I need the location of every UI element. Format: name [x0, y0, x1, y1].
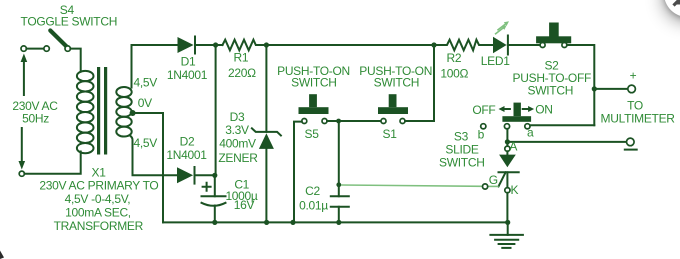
- bottom-left corner mark: [0, 251, 4, 259]
- S3 arrow ON (right): [523, 108, 529, 110]
- terminal plus (to multimeter): [628, 85, 636, 93]
- wire R1 junction down to zener: [265, 45, 267, 132]
- terminal minus (to multimeter): [627, 138, 635, 146]
- wire S5 right to junction to S1: [327, 120, 381, 122]
- node junction top bus / S1: [431, 42, 436, 47]
- svg-text:4,5V -0-4,5V,: 4,5V -0-4,5V,: [65, 192, 131, 206]
- wire gate (light) C2 to G terminal: [341, 185, 483, 186]
- svg-text:A: A: [509, 139, 517, 153]
- svg-text:SWITCH: SWITCH: [439, 155, 485, 169]
- wire slide switch a to S2 vertical: [530, 124, 594, 126]
- wire S5 left leg to bus: [294, 122, 302, 223]
- corner button arrow icon: [674, 0, 680, 6]
- node C2/bus: [336, 220, 341, 225]
- SCR gate terminal G: [483, 184, 488, 189]
- SCR gate lead: [499, 172, 506, 186]
- node S5/bus: [290, 220, 295, 225]
- svg-text:a: a: [527, 125, 534, 139]
- S3 arrow OFF (left): [504, 108, 510, 110]
- svg-text:SWITCH: SWITCH: [291, 75, 337, 89]
- wire to plus terminal: [594, 88, 628, 90]
- transformer X1 core: [97, 67, 100, 155]
- svg-text:1N4001: 1N4001: [166, 148, 207, 162]
- node C1/bus: [212, 220, 217, 225]
- wire LED1 to S2: [508, 44, 540, 46]
- svg-text:400mV: 400mV: [219, 136, 256, 150]
- node junction S5/S1/C2: [336, 119, 341, 124]
- svg-text:4,5V: 4,5V: [134, 76, 158, 90]
- wire to minus terminal: [507, 141, 626, 143]
- AC source arrow up: [23, 60, 25, 95]
- S3 terminal centre: [504, 124, 509, 129]
- push-to-off switch S2 button: [536, 36, 571, 43]
- push-to-on switch S5 button: [299, 107, 329, 114]
- svg-text:MULTIMETER: MULTIMETER: [601, 111, 676, 125]
- zener diode D3: [252, 128, 281, 135]
- ground: [507, 222, 509, 235]
- wire top bus left segment (transformer 4.5V top tap to D1): [132, 45, 178, 88]
- S5 terminal left: [302, 119, 307, 124]
- node junction plus-feed: [592, 86, 597, 91]
- node junction D1/R1: [213, 42, 218, 47]
- svg-text:R1: R1: [234, 51, 249, 65]
- capacitor C2: [331, 196, 349, 207]
- node ground junction: [505, 220, 510, 225]
- wire D1 cathode to R1: [195, 44, 223, 46]
- svg-text:b: b: [478, 128, 485, 142]
- svg-text:R2: R2: [447, 51, 462, 65]
- svg-text:50Hz: 50Hz: [22, 111, 49, 125]
- node 0V centre tap: [130, 110, 136, 116]
- svg-text:TOGGLE SWITCH: TOGGLE SWITCH: [21, 15, 118, 29]
- svg-text:ZENER: ZENER: [218, 151, 258, 165]
- S2 terminal left: [540, 43, 545, 48]
- wire S3 centre terminal down to SCR: [506, 129, 508, 142]
- svg-text:4,5V: 4,5V: [134, 136, 158, 150]
- SCR anode terminal A: [506, 142, 508, 146]
- svg-text:OFF: OFF: [472, 103, 495, 117]
- wire S2 to right corner and down: [567, 45, 594, 125]
- svg-text:SLIDE: SLIDE: [445, 142, 478, 156]
- wire S4 t1-t2: [26, 48, 44, 50]
- diode D1: [178, 37, 194, 53]
- capacitor C1 plus sign: [203, 183, 211, 191]
- svg-text:SWITCH: SWITCH: [528, 83, 574, 97]
- svg-text:3.3V: 3.3V: [225, 123, 249, 137]
- svg-text:TO: TO: [627, 98, 643, 112]
- resistor R1: [223, 40, 267, 51]
- node junction R1/D3: [264, 42, 269, 47]
- wire C2 to bus: [338, 207, 340, 223]
- wire C1 to bottom bus: [214, 206, 216, 223]
- wire cathode to ground: [506, 193, 508, 223]
- minus sign bar: [625, 149, 637, 151]
- node SCR anode junction: [505, 139, 510, 144]
- svg-text:D3: D3: [230, 110, 245, 124]
- wire S1 right leg up to top bus: [405, 45, 434, 121]
- wire secondary bottom tap down: [130, 135, 178, 175]
- node C2 top / gate wire: [336, 182, 341, 187]
- svg-text:0V: 0V: [138, 96, 152, 110]
- LED1 emission arrow 2: [497, 24, 505, 30]
- svg-text:+: +: [630, 69, 637, 83]
- svg-text:0.01µ: 0.01µ: [299, 199, 328, 213]
- svg-text:LED1: LED1: [481, 54, 510, 68]
- wire bottom bus: [163, 221, 508, 223]
- transformer X1 primary winding: [77, 71, 94, 153]
- S5 terminal right: [322, 119, 327, 124]
- node D3/bus: [264, 220, 269, 225]
- node junction D2/C1: [212, 173, 217, 178]
- svg-text:S1: S1: [383, 127, 398, 141]
- AC input terminal bottom: [19, 171, 24, 176]
- wire zener to bottom bus: [265, 149, 267, 223]
- capacitor C1: [202, 195, 226, 197]
- svg-text:G: G: [489, 173, 498, 187]
- slide switch S3 knob: [502, 116, 531, 122]
- svg-text:1N4001: 1N4001: [167, 68, 208, 82]
- AC source arrow down: [21, 128, 23, 163]
- svg-text:X1: X1: [92, 165, 107, 179]
- floating corner button (partially visible): [664, 0, 680, 17]
- SCR thyristor body: [506, 151, 508, 154]
- gate light segment: [488, 185, 499, 187]
- svg-text:C2: C2: [305, 184, 320, 198]
- wire centre tap to bottom bus: [133, 113, 163, 222]
- svg-text:D2: D2: [180, 134, 195, 148]
- S3 terminal b: [481, 124, 486, 129]
- svg-text:SWITCH: SWITCH: [374, 75, 420, 89]
- diode D2: [177, 167, 193, 183]
- wire D2 cathode to junction: [195, 174, 215, 176]
- svg-text:S5: S5: [305, 127, 320, 141]
- svg-text:100Ω: 100Ω: [440, 66, 468, 80]
- svg-text:100mA SEC,: 100mA SEC,: [65, 206, 131, 220]
- svg-text:K: K: [511, 183, 519, 197]
- svg-text:ON: ON: [535, 102, 552, 116]
- toggle switch S4 terminal 3: [65, 46, 70, 51]
- wire junction down to C2: [338, 121, 340, 196]
- LED1 emission arrow 1: [495, 28, 503, 34]
- svg-text:220Ω: 220Ω: [228, 66, 256, 80]
- wire rectifier output vertical: [214, 45, 217, 196]
- LED LED1: [493, 37, 507, 54]
- toggle switch S4 lever: [50, 31, 67, 47]
- toggle switch S4 terminal 2: [44, 46, 49, 51]
- S1 terminal right: [400, 119, 405, 124]
- svg-text:230V AC PRIMARY TO: 230V AC PRIMARY TO: [39, 179, 158, 193]
- wire AC bottom terminal to primary bottom: [24, 152, 80, 174]
- svg-text:D1: D1: [181, 55, 196, 69]
- toggle switch S4 terminal 1: [21, 46, 26, 51]
- S2 terminal right: [562, 43, 567, 48]
- transformer X1 secondary winding: [116, 87, 131, 137]
- S3 terminal a: [525, 124, 530, 129]
- SCR cathode terminal K: [506, 172, 508, 187]
- wire top bus middle segment: [266, 44, 434, 46]
- svg-text:16V: 16V: [234, 198, 255, 212]
- svg-text:TRANSFORMER: TRANSFORMER: [54, 219, 144, 233]
- S1 terminal left: [381, 119, 386, 124]
- push-to-on switch S1 button: [378, 107, 408, 114]
- wire S4 to primary top: [70, 49, 80, 72]
- resistor R2: [434, 40, 493, 51]
